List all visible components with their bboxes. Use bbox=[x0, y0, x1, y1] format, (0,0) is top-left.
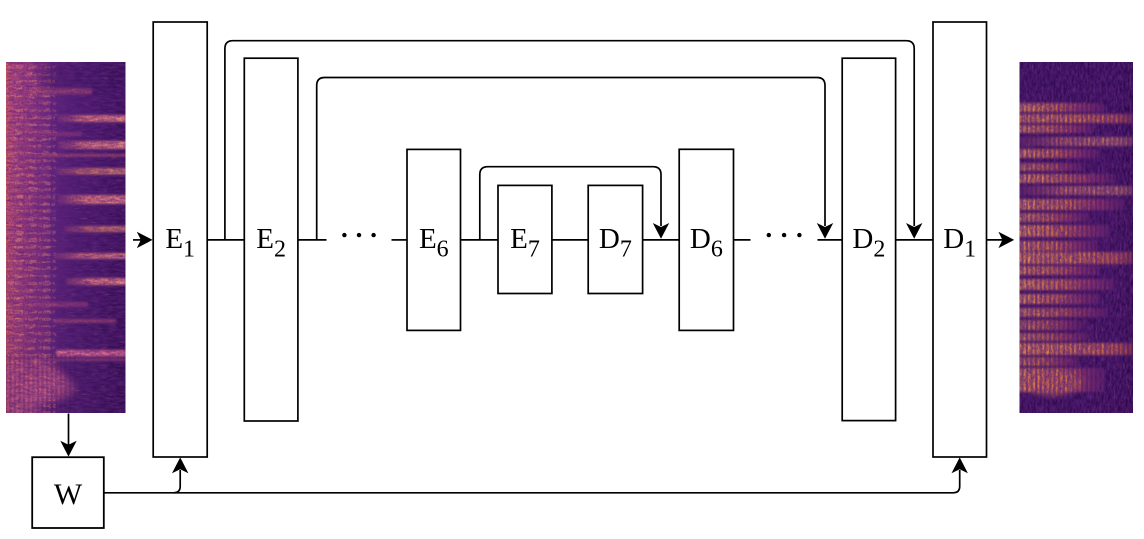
svg-text:W: W bbox=[54, 478, 83, 511]
